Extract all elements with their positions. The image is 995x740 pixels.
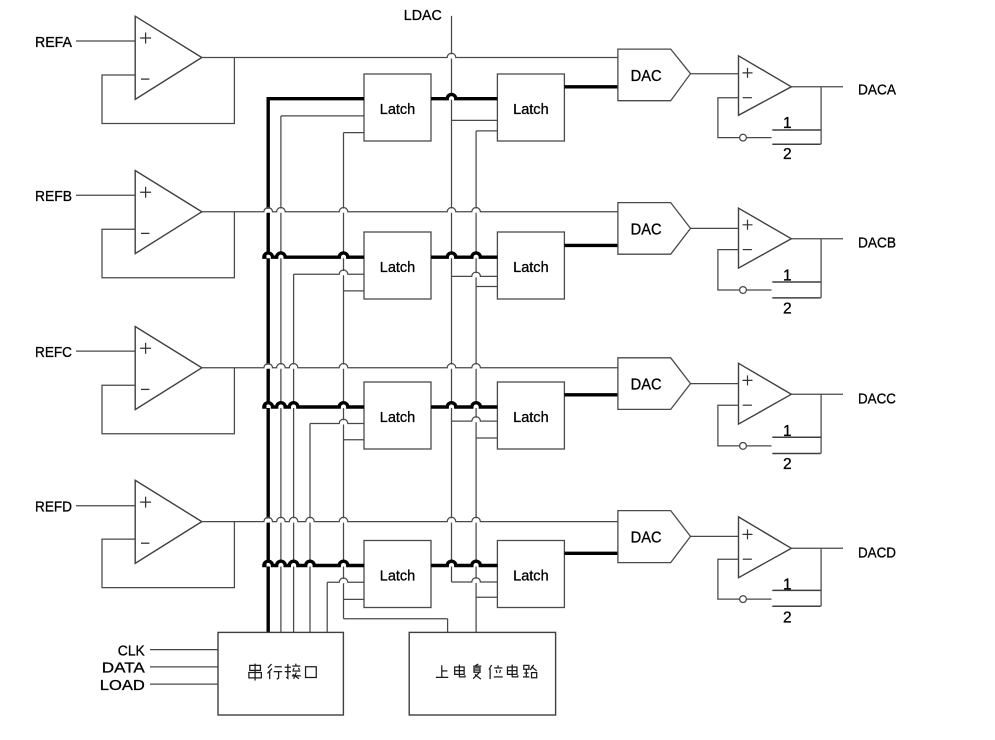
svg-text:DAC: DAC — [631, 221, 662, 238]
svg-text:Latch: Latch — [513, 409, 549, 426]
svg-text:1: 1 — [783, 115, 792, 132]
svg-text:LDAC: LDAC — [404, 7, 442, 24]
svg-text:Latch: Latch — [513, 101, 549, 118]
svg-text:1: 1 — [783, 576, 792, 593]
svg-text:CLK: CLK — [118, 642, 145, 659]
svg-text:REFA: REFA — [35, 34, 72, 51]
svg-text:Latch: Latch — [513, 259, 549, 276]
svg-text:2: 2 — [783, 456, 792, 473]
svg-text:2: 2 — [783, 609, 792, 626]
svg-text:DACC: DACC — [858, 390, 896, 407]
svg-text:DACD: DACD — [858, 544, 896, 561]
svg-text:REFB: REFB — [35, 188, 72, 205]
svg-text:DAC: DAC — [631, 376, 662, 393]
svg-text:DAC: DAC — [631, 68, 662, 85]
svg-text:Latch: Latch — [513, 567, 549, 584]
svg-text:DACA: DACA — [858, 81, 896, 98]
svg-text:DAC: DAC — [631, 529, 662, 546]
svg-text:LOAD: LOAD — [100, 677, 145, 694]
svg-text:1: 1 — [783, 423, 792, 440]
svg-text:2: 2 — [783, 301, 792, 318]
svg-text:DATA: DATA — [102, 660, 145, 677]
svg-text:Latch: Latch — [380, 409, 416, 426]
svg-text:REFC: REFC — [35, 344, 72, 361]
svg-text:1: 1 — [783, 268, 792, 285]
svg-text:2: 2 — [783, 146, 792, 163]
svg-text:REFD: REFD — [35, 499, 72, 516]
svg-text:Latch: Latch — [380, 259, 416, 276]
svg-text:Latch: Latch — [380, 101, 416, 118]
svg-text:Latch: Latch — [380, 567, 416, 584]
svg-text:DACB: DACB — [858, 234, 896, 251]
